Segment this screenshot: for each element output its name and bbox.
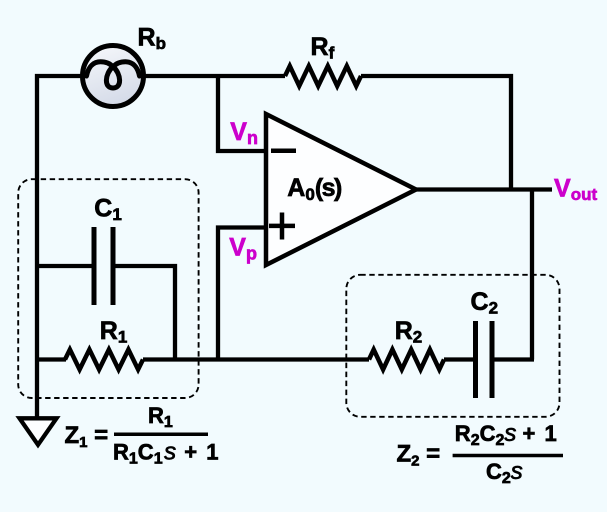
svg-text:Vn: Vn [230,118,258,148]
wire: C1 left branch [37,264,94,268]
svg-text:Rb: Rb [138,24,166,54]
op-amp plus sign [269,213,295,240]
svg-text:R1: R1 [148,403,173,431]
op-amp U1 [266,114,416,265]
wire: R2 to C2 [444,357,476,361]
resistor Rf [285,66,361,86]
svg-text:C2s: C2s [486,458,523,487]
op-amp minus sign [271,149,296,154]
dashed box Z2 [346,275,559,417]
svg-text:Z2 =: Z2 = [397,441,441,470]
wire: C1 right branch [113,266,175,360]
lamp Rb [83,46,144,107]
svg-text:Z1 =: Z1 = [65,422,109,451]
svg-text:R1: R1 [100,317,128,347]
svg-text:C1: C1 [94,195,122,225]
wire: Rf to feedback drop at output [361,76,511,189]
svg-text:C2: C2 [471,288,499,318]
wire: non-inverting input drop [218,228,266,360]
wire: lamp to feedback node to Rf [142,74,285,78]
wire: bottom rail left of R1 [37,357,66,361]
wire: inverting input from node [218,74,266,151]
svg-text:R2C2s + 1: R2C2s + 1 [455,420,557,449]
resistor R2 [369,350,444,370]
svg-text:Vp: Vp [229,233,257,263]
wire: op-amp output [414,187,552,191]
capacitor C1 [94,227,113,305]
capacitor C2 [476,321,493,398]
resistor R1 [65,350,143,370]
svg-text:Vout: Vout [554,174,597,204]
svg-text:R2: R2 [395,317,423,347]
wire: C2 to output drop [492,357,534,361]
formula Z1 [65,403,219,468]
ground [20,418,57,445]
svg-text:Rf: Rf [311,33,335,63]
wire: output to Z2 drop [530,190,534,360]
svg-text:R1C1s + 1: R1C1s + 1 [113,439,218,468]
formula Z2 [397,420,564,487]
dashed box Z1 [18,179,198,398]
svg-text:A0(s): A0(s) [287,174,342,204]
wire: left vertical rail with top corner to lamp [37,76,84,417]
wire: bottom rail middle [143,357,369,361]
